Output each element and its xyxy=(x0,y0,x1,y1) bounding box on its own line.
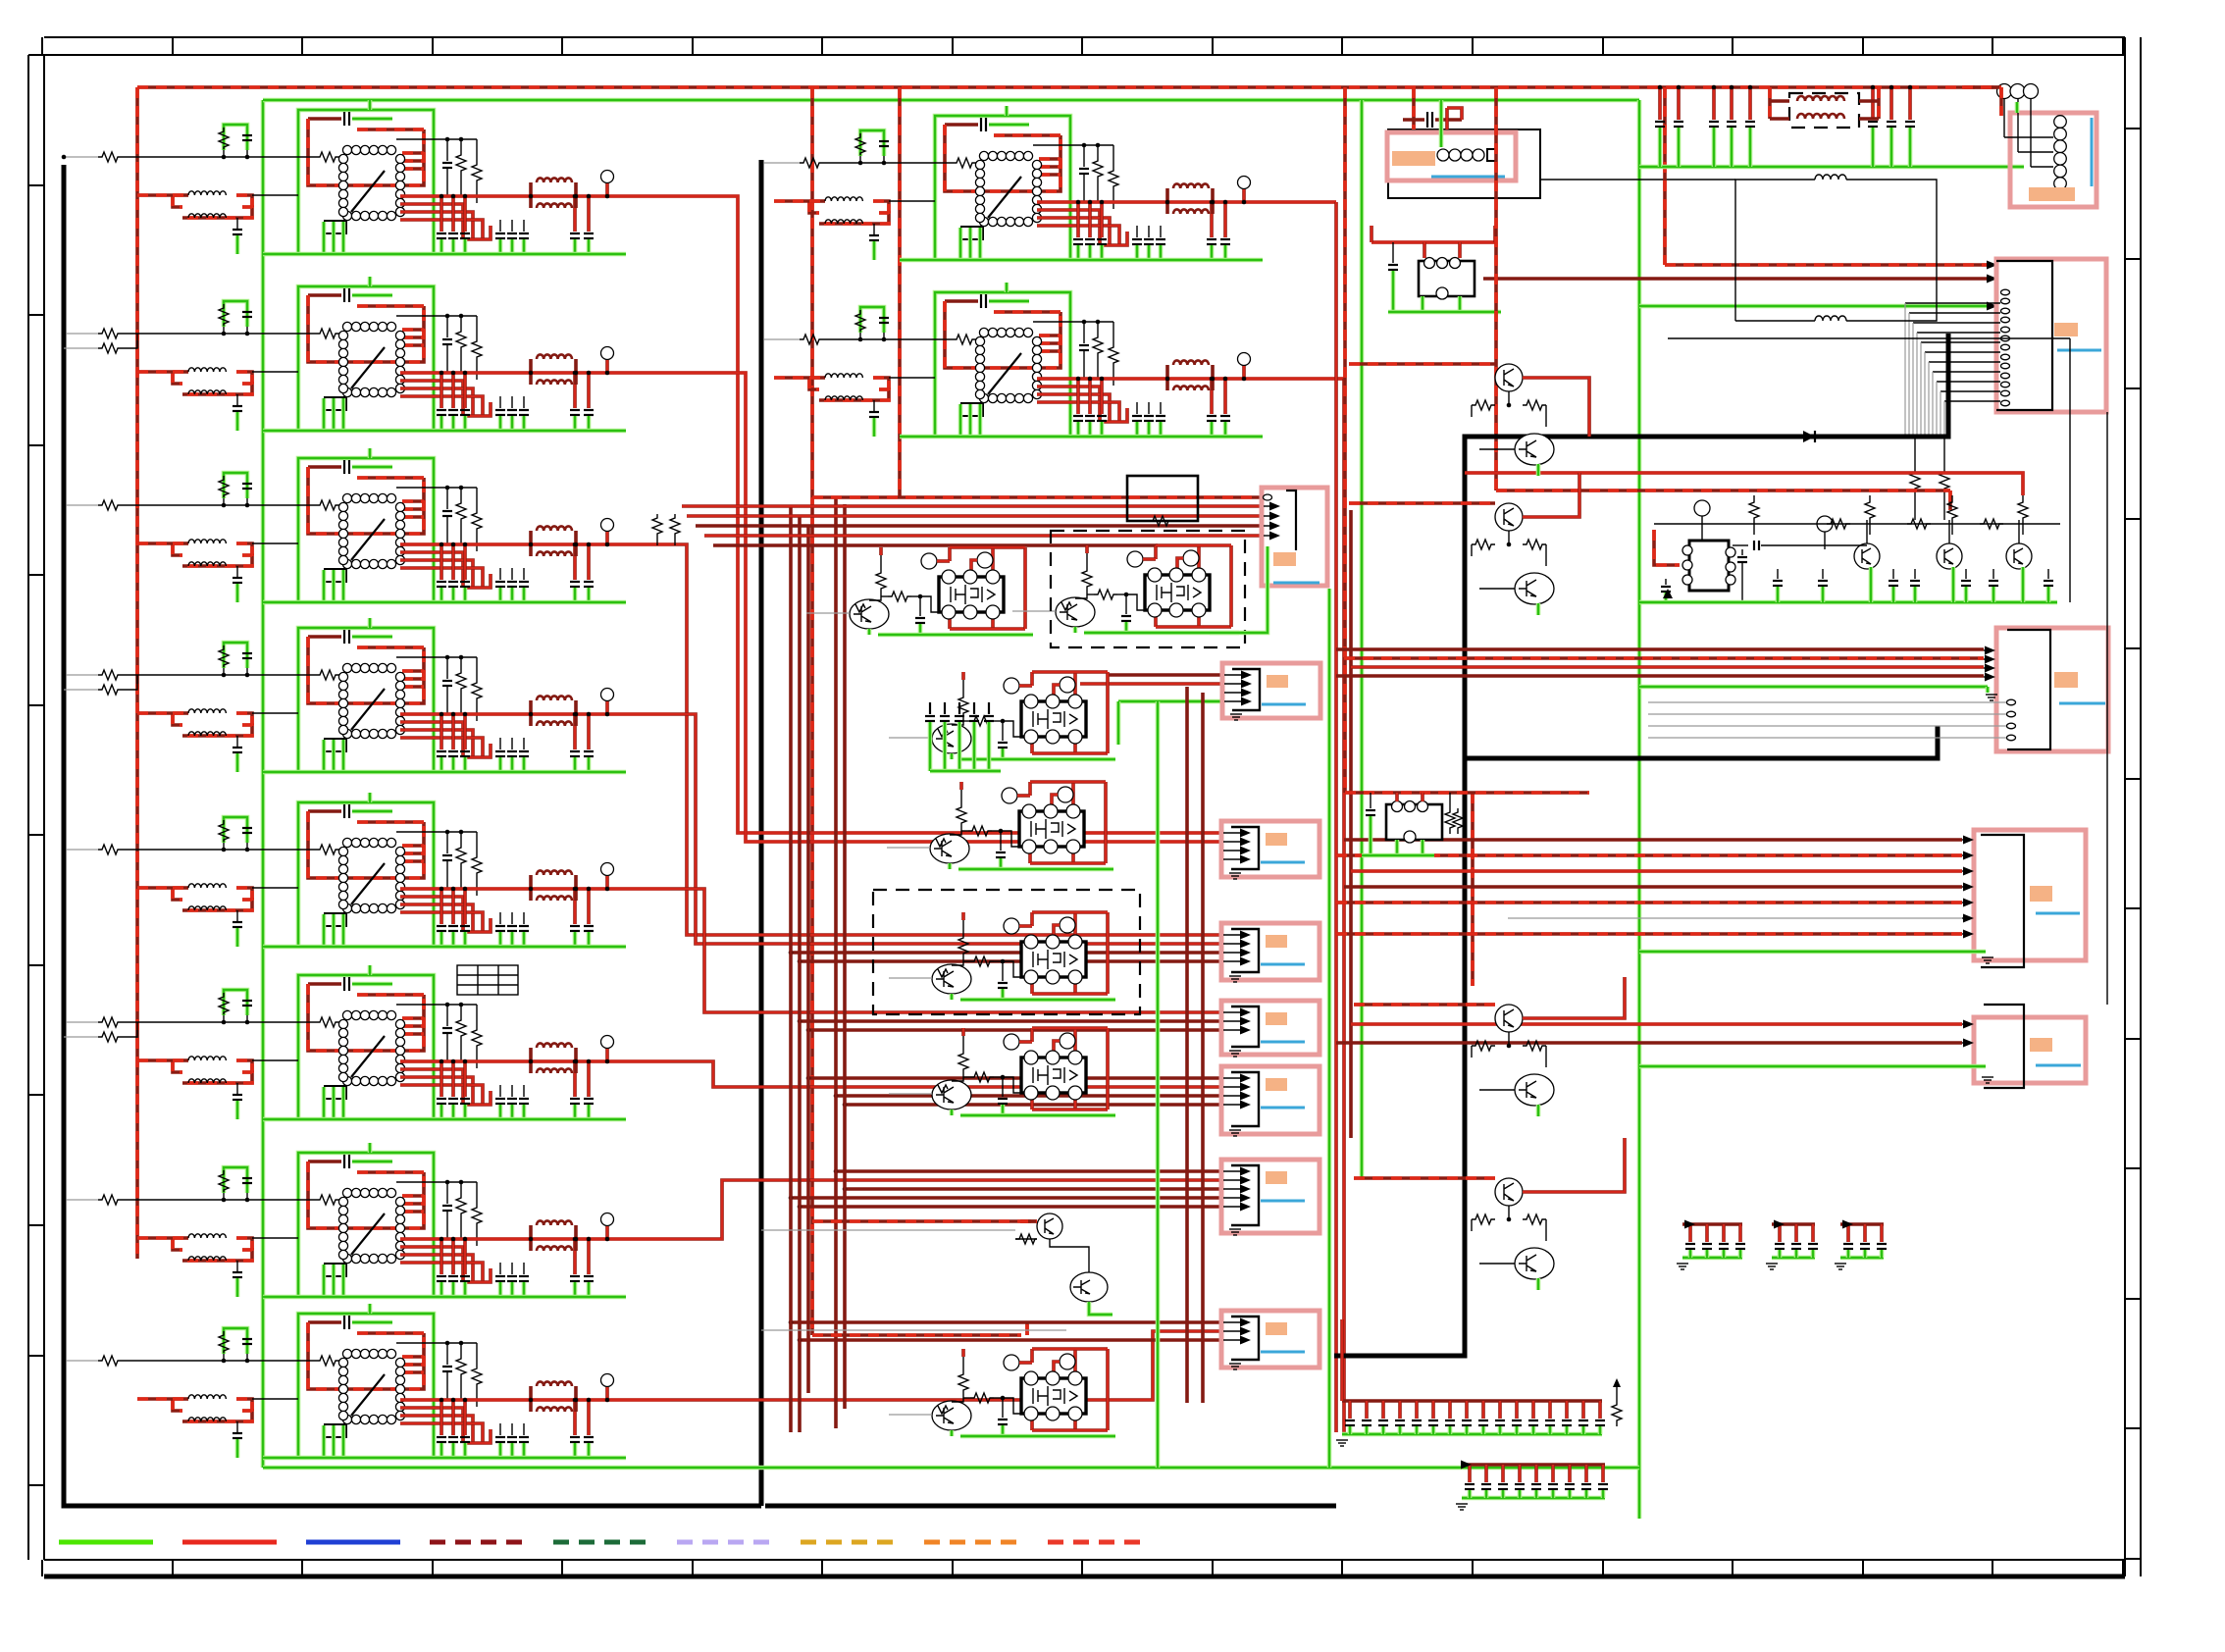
wire dashed feed U2 xyxy=(137,370,173,374)
wire input row 8 xyxy=(64,1360,98,1362)
capacitor C-U1218g xyxy=(511,220,513,232)
IC U7 pin ring xyxy=(342,1188,351,1197)
sense loop rect xyxy=(1735,180,1815,321)
capacitor C-PM1 xyxy=(919,596,921,616)
transistor Q20 xyxy=(1037,1213,1062,1239)
wire input row 3 xyxy=(64,504,98,506)
ground J4 xyxy=(1229,975,1241,977)
RC snubber U6 xyxy=(224,990,247,1015)
capacitor C31812 xyxy=(1777,569,1779,579)
module supply loop PM6 xyxy=(1030,1028,1034,1042)
mosfet glyph PM1 xyxy=(951,585,978,604)
wire Q20 bias xyxy=(1015,1238,1037,1240)
output net U10 xyxy=(1037,387,1100,422)
red trunk vertical B xyxy=(1342,379,1346,1432)
filter inductors L-U6 xyxy=(529,1048,533,1061)
capacitor C-U2282 xyxy=(573,373,577,408)
capacitor C32004 xyxy=(1965,569,1967,579)
resistors QP4 xyxy=(1508,1206,1510,1219)
capacitor C-U5158 xyxy=(451,889,455,924)
wire input PM1 xyxy=(806,612,850,614)
driver module U6 xyxy=(137,965,670,1119)
capacitor C-PM7 xyxy=(1002,1398,1004,1418)
IC U6 switch lever xyxy=(351,1036,385,1077)
capacitor C-tr1692 xyxy=(1658,87,1662,120)
legend blue solid xyxy=(306,1540,400,1545)
resistor R-U6b1 xyxy=(456,1016,466,1042)
wire dashed feed U4 xyxy=(137,711,173,715)
relay RL2 wiring xyxy=(1345,791,1589,795)
capacitor C-U10a xyxy=(945,299,978,303)
resistor R-U5b2 xyxy=(472,853,482,879)
resistors QP3 xyxy=(1508,1032,1510,1046)
RC snubber U2 xyxy=(224,301,247,327)
maroon feed to CN2 xyxy=(1483,277,1992,281)
resistor R-PM4a xyxy=(960,790,962,803)
transistor Q-PM1 xyxy=(850,599,889,629)
transistor Q-PM3 xyxy=(932,724,971,753)
test point TP-U5 xyxy=(601,863,614,876)
capacitor C-U3296 xyxy=(587,544,591,580)
green tap into K1 xyxy=(1439,100,1444,147)
capacitor C-U8282 xyxy=(573,1400,577,1435)
capacitor C-U7g xyxy=(236,1261,238,1271)
connector J2 xyxy=(1222,663,1320,720)
IC U3 body tab xyxy=(325,569,346,582)
resistor R31788 xyxy=(1753,495,1755,498)
capacitor C-U9158 xyxy=(1088,202,1092,237)
capacitor C-U8230g xyxy=(523,1423,525,1435)
op-amp U20 xyxy=(1689,541,1729,591)
wire input mid row 1 xyxy=(761,162,800,164)
ferrite loop U8 xyxy=(173,1399,182,1411)
IC U2 pin ring xyxy=(342,322,351,331)
capacitor C-U3a xyxy=(308,465,341,469)
resistor R-PM4b xyxy=(961,830,968,832)
wire dashed feed U7 xyxy=(137,1236,173,1240)
resistors QP1 xyxy=(1508,391,1510,405)
capacitor C-U10g xyxy=(873,400,875,411)
ferrite loop U7 xyxy=(173,1238,182,1250)
capacitor C21 xyxy=(1665,579,1667,585)
power module PM5 xyxy=(889,912,1115,1000)
green return bus U6 xyxy=(263,1117,626,1122)
green ground bus PM2 xyxy=(1073,627,1078,633)
capacitor C-U2206g xyxy=(499,396,501,408)
capacitor C-U4218g xyxy=(511,738,513,749)
relay RL2 xyxy=(1386,801,1442,844)
wire input row 5 xyxy=(64,849,98,851)
green ground bus PM5 xyxy=(950,994,955,1000)
capacitor C-U5230g xyxy=(523,912,525,924)
green feed to CN2 xyxy=(1639,304,1992,309)
capacitor C-U4158 xyxy=(451,714,455,749)
capacitor C-U5206g xyxy=(499,912,501,924)
black power bus mid xyxy=(759,160,764,1506)
resistor R-U7b1 xyxy=(456,1194,466,1219)
wire trunk row 2 xyxy=(670,373,1221,842)
capacitor C-U9282 xyxy=(1210,202,1214,237)
output net U6 xyxy=(400,1069,463,1105)
connector CN4 xyxy=(1962,830,2086,967)
dashed vertical trunk left xyxy=(1343,87,1347,793)
capacitor C-U3158 xyxy=(451,544,455,580)
resistor R-U8in xyxy=(316,1356,339,1366)
module body PM4 xyxy=(1019,811,1084,847)
IC U10 pin ring xyxy=(979,328,988,336)
capacitor C-tr1711 xyxy=(1677,87,1681,120)
terminal circles PM2 xyxy=(1127,551,1143,567)
output net U5 xyxy=(400,897,463,932)
driver module U10 xyxy=(774,283,1307,437)
capacitor C-U9g xyxy=(873,224,875,234)
output net U3 xyxy=(400,552,463,588)
dashed enclosure B xyxy=(873,890,1140,1014)
transistor Q-PM7 xyxy=(932,1401,971,1430)
capacitor C-U7230g xyxy=(523,1263,525,1274)
capacitor C-U3230g xyxy=(523,568,525,580)
green ground bus PM1 xyxy=(867,629,872,635)
IC U6 pin ring xyxy=(342,1010,351,1019)
power module PM1 xyxy=(806,547,1033,635)
RC snubber U10 xyxy=(860,307,884,333)
black sense vertical right xyxy=(2106,412,2108,1005)
module body PM7 xyxy=(1021,1378,1086,1414)
main output wire U10 xyxy=(1037,377,1307,381)
wire input mid row 2 xyxy=(761,338,800,340)
red trunk vertical F xyxy=(798,516,802,1432)
test point TP20 xyxy=(1694,500,1710,516)
capacitor C-U4296 xyxy=(587,714,591,749)
capacitor C-U1g xyxy=(236,218,238,229)
filter inductors L-U4 xyxy=(529,700,533,714)
resistor R-U10in xyxy=(953,335,976,344)
green net box U4 xyxy=(298,628,434,772)
capacitor C-tr1928 xyxy=(1889,87,1893,120)
transistor Q32 xyxy=(2006,543,2032,569)
power module PM7 xyxy=(889,1349,1115,1436)
capacitor C-U10146 xyxy=(1076,379,1080,414)
resistor R-PM7a xyxy=(962,1357,964,1370)
resistor R-U8b2 xyxy=(472,1365,482,1390)
capacitor C-U6230g xyxy=(523,1085,525,1097)
resistor R-U1b2 xyxy=(472,161,482,186)
resistor R-U9b1 xyxy=(1093,157,1103,182)
IC U4 switch lever xyxy=(351,689,385,730)
connector J6 xyxy=(1221,1066,1319,1136)
green top tap U4 xyxy=(368,618,373,628)
transistor Q-PM2 xyxy=(1056,597,1095,627)
module body PM5 xyxy=(1021,942,1086,977)
wire input row 2b xyxy=(64,347,98,349)
wire trunk row 8 xyxy=(670,1331,1221,1400)
ground J7 xyxy=(1229,1228,1241,1230)
main output wire U8 xyxy=(400,1398,670,1402)
ferrite loop U10 xyxy=(809,378,819,389)
RC snubber U9 xyxy=(860,130,884,156)
IC U10 body tab xyxy=(961,403,983,416)
bundle into mid modules xyxy=(713,543,1158,547)
driver module U9 xyxy=(774,106,1307,260)
red dashed net loop U10 xyxy=(945,301,1061,368)
IC U5 pin ring xyxy=(342,838,351,847)
resistor R-U4in xyxy=(316,670,339,680)
resistor R-U1b1 xyxy=(456,151,466,177)
red dashed vertical mid-left xyxy=(810,87,814,1335)
test point TP-U7 xyxy=(601,1213,614,1226)
top connector box K1 xyxy=(1387,129,1540,198)
IC U9 body tab xyxy=(961,227,983,239)
capacitor C-U6158 xyxy=(451,1061,455,1097)
IC U1 pin ring xyxy=(342,145,351,154)
green return bus U3 xyxy=(263,600,626,605)
green net box U3 xyxy=(298,458,434,602)
module body PM2 xyxy=(1145,575,1210,610)
resistor R-U9in xyxy=(953,158,976,168)
resistor R-U3in xyxy=(316,500,339,510)
green top tap U8 xyxy=(368,1304,373,1314)
capacitor C-PM5 xyxy=(1002,961,1004,981)
capacitor C-U4170 xyxy=(463,714,467,749)
capacitor C-tr1765 xyxy=(1730,87,1733,120)
red trunk vertical E xyxy=(789,506,793,1432)
ferrite loop U6 xyxy=(173,1060,182,1072)
main output wire U5 xyxy=(400,887,670,891)
IC U1 switch lever xyxy=(351,171,385,212)
terminal circles PM1 xyxy=(921,553,937,569)
output net U1 xyxy=(400,204,463,239)
main output wire U7 xyxy=(400,1237,670,1241)
filter inductors L-U2 xyxy=(529,359,533,373)
base bias line xyxy=(1654,523,2060,525)
wire dashed feed U5 xyxy=(137,886,173,890)
resistor R-PM1b xyxy=(881,595,888,597)
resistor comb end xyxy=(1612,1401,1622,1426)
test point TP-U8 xyxy=(601,1374,614,1387)
IC U7 switch lever xyxy=(351,1213,385,1255)
transistor Q-PM4 xyxy=(930,834,969,863)
green return bus U4 xyxy=(263,770,626,775)
green top tap U6 xyxy=(368,965,373,975)
IC U9 switch lever xyxy=(988,177,1021,218)
power module PM3 xyxy=(889,672,1115,759)
transistor pair QP1 xyxy=(1472,364,1554,476)
power module PM2 xyxy=(1012,545,1239,633)
bias mesh xyxy=(1668,337,2070,339)
input cap C24 xyxy=(1753,541,1755,550)
capacitor C-PM3 xyxy=(1002,721,1004,741)
driver module U7 xyxy=(137,1143,670,1297)
test point TP-U9 xyxy=(1238,177,1251,189)
power feed to audio section xyxy=(1465,473,2023,495)
connector J7 xyxy=(1221,1160,1319,1235)
capacitor C-U7206g xyxy=(499,1263,501,1274)
capacitor comb CB2 xyxy=(1456,1465,1608,1510)
IC U9 pin ring xyxy=(979,151,988,160)
resistor R-U9b2 xyxy=(1109,167,1118,192)
capacitor C-U1170 xyxy=(463,196,467,232)
filter inductors L-U1 xyxy=(529,182,533,196)
wire fan to CN2 xyxy=(1905,302,2000,304)
capacitor C-U3282 xyxy=(573,544,577,580)
green right vertical bus xyxy=(1637,100,1642,1519)
module supply loop PM3 xyxy=(1030,672,1034,686)
diode D2 xyxy=(1663,589,1673,598)
green net box U2 xyxy=(298,286,434,431)
top-right capacitor row xyxy=(1639,165,2024,170)
power module PM4 xyxy=(887,782,1113,869)
capacitor C-U6a xyxy=(308,982,341,986)
capacitor C-U2a xyxy=(308,293,341,297)
red dashed supply loop left xyxy=(135,87,139,1259)
green ground bus PM6 xyxy=(950,1110,955,1115)
wire input row 4 xyxy=(64,674,98,676)
wires to CN4 xyxy=(1344,838,1962,842)
transistor Q-PM6 xyxy=(932,1080,971,1110)
capacitor C-U3g xyxy=(236,566,238,577)
capacitor C31930 xyxy=(1892,569,1894,579)
capacitor C-U5282 xyxy=(573,889,577,924)
connector CN3 xyxy=(1648,628,2108,751)
IC U4 pin ring xyxy=(342,663,351,672)
resistor R-U3b2 xyxy=(472,509,482,535)
IC U7 body tab xyxy=(325,1264,346,1276)
green bottom bus xyxy=(263,1466,1639,1471)
wire input PM5 xyxy=(889,977,932,979)
mosfet glyph PM4 xyxy=(1031,819,1059,839)
resistor R-U5in xyxy=(316,845,339,854)
RC snubber U5 xyxy=(224,817,247,843)
wire mid row outputs xyxy=(1307,200,1336,204)
capacitor C-U2170 xyxy=(463,373,467,408)
capacitor C-U2158 xyxy=(451,373,455,408)
bundle coupling resistors xyxy=(652,514,662,540)
filter inductors L-U10 xyxy=(1165,365,1169,379)
capacitor C-U8g xyxy=(236,1421,238,1432)
wire input row 7 xyxy=(64,1199,98,1201)
output net U7 xyxy=(400,1247,463,1282)
wire dashed feed U9 xyxy=(774,199,809,203)
mosfet glyph PM6 xyxy=(1033,1065,1061,1085)
audio amplifier section xyxy=(1639,495,2060,602)
red dashed net loop U4 xyxy=(308,637,424,703)
transistor pair QP2 xyxy=(1472,503,1554,615)
IC U10 switch lever xyxy=(988,353,1021,394)
IC U3 pin ring xyxy=(342,493,351,502)
wire trunk row 7 xyxy=(670,1180,1221,1239)
capacitor C-tr1909 xyxy=(1871,87,1875,120)
test point TP-U10 xyxy=(1238,353,1251,366)
terminal circles PM3 xyxy=(1004,678,1019,694)
connector CN2 xyxy=(1996,259,2106,412)
transistor pair QP3 xyxy=(1472,1005,1554,1116)
resistor R-PM5a xyxy=(962,920,964,934)
wire input PM6 xyxy=(889,1093,932,1095)
transistor Q31 xyxy=(1937,543,1962,569)
green top tap U9 xyxy=(1005,106,1009,116)
P1 connector feed lines xyxy=(812,495,1263,499)
connector J8 xyxy=(1221,1311,1319,1369)
ferrite loop U9 xyxy=(809,201,819,213)
main output wire U9 xyxy=(1037,200,1307,204)
capacitor C-U7146 xyxy=(440,1239,443,1274)
green return bus U10 xyxy=(900,435,1263,439)
resistor R-U5b1 xyxy=(456,844,466,869)
black bottom bus extension xyxy=(765,1504,1336,1509)
driver module U5 xyxy=(137,793,670,947)
capacitor C-U6146 xyxy=(440,1061,443,1097)
wire dashed feed U6 xyxy=(137,1058,173,1062)
red dashed net loop U1 xyxy=(308,119,424,185)
connector J3 xyxy=(1221,821,1319,879)
wire dashed feed U8 xyxy=(137,1397,173,1401)
capacitor C-PM6 xyxy=(1002,1077,1004,1097)
wires to CN3 xyxy=(1336,647,1984,651)
diode D1 xyxy=(1803,431,1815,442)
capacitor C-U10282 xyxy=(1210,379,1214,414)
mosfet glyph PM7 xyxy=(1033,1386,1061,1406)
green return bus U2 xyxy=(263,429,626,434)
capacitor C-U10206g xyxy=(1136,402,1138,414)
connector J5 xyxy=(1221,1001,1319,1057)
wire to J2 xyxy=(1080,682,1221,686)
capacitor C-U2218g xyxy=(511,396,513,408)
resistor R-PM7b xyxy=(963,1397,970,1399)
green ground bus PM7 xyxy=(950,1430,955,1436)
resistor R-U2b2 xyxy=(472,337,482,363)
RC snubber U1 xyxy=(224,125,247,150)
wire input PM4 xyxy=(887,847,930,849)
capacitor C-U1296 xyxy=(587,196,591,232)
ground J2 xyxy=(1230,713,1242,715)
terminal circles PM5 xyxy=(1004,918,1019,934)
capacitor C-U9a xyxy=(945,123,978,127)
capacitor C32088 xyxy=(2047,569,2049,579)
ground J6 xyxy=(1229,1129,1241,1131)
resistor R-U4b1 xyxy=(456,669,466,695)
capacitor C-U5296 xyxy=(587,889,591,924)
green cap cluster xyxy=(929,702,931,714)
connector J1 xyxy=(1262,488,1327,586)
capacitor C-U1a xyxy=(308,117,341,121)
capacitor comb CB4 xyxy=(1766,1224,1818,1269)
capacitor above K1 xyxy=(1403,118,1424,122)
resistor R-U2b1 xyxy=(456,328,466,353)
capacitor C-U7170 xyxy=(463,1239,467,1274)
capacitor C-U8170 xyxy=(463,1400,467,1435)
resistor R-U7in xyxy=(316,1195,339,1205)
relay RL1 xyxy=(1419,258,1475,300)
bias network U7 xyxy=(396,1181,477,1183)
capacitor C-U6218g xyxy=(511,1085,513,1097)
wire trunk row 6 xyxy=(670,1061,1221,1087)
green return bus U8 xyxy=(263,1456,626,1461)
resistor R32062 xyxy=(2022,495,2024,498)
dashed feed op-amp xyxy=(1654,530,1680,565)
wire input PM3 xyxy=(889,737,932,739)
IC U8 switch lever xyxy=(351,1374,385,1416)
filter inductors L-U9 xyxy=(1165,188,1169,202)
resistor R-U6b2 xyxy=(472,1026,482,1052)
module supply loop PM5 xyxy=(1030,912,1034,926)
capacitor C-U2146 xyxy=(440,373,443,408)
capacitor C-U8296 xyxy=(587,1400,591,1435)
module supply loop PM4 xyxy=(1028,782,1032,796)
bundle fill lines xyxy=(791,951,1221,955)
resistor R-U8b1 xyxy=(456,1355,466,1380)
capacitor C-U1206g xyxy=(499,220,501,232)
dashed vertical right mid xyxy=(1471,793,1475,986)
